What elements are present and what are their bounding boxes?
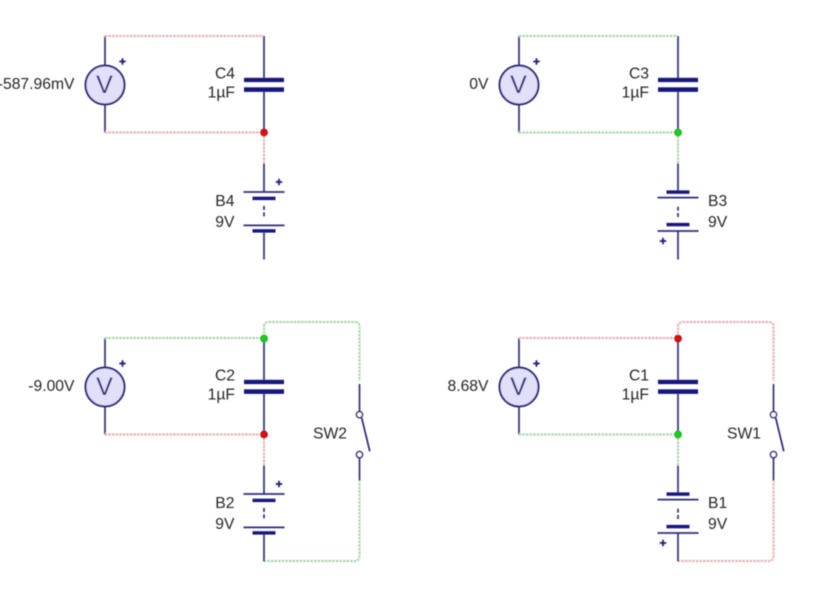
node junction (cap bottom) [261, 431, 268, 438]
switch SW1 [770, 384, 783, 481]
node junction (cap bottom) [675, 431, 682, 438]
svg-text:1µF: 1µF [208, 85, 235, 102]
label C1 value 1µF [622, 368, 649, 404]
wire to switch top [678, 322, 774, 382]
wire battery to switch bottom [678, 481, 774, 562]
svg-text:SW1: SW1 [727, 426, 761, 443]
wire battery to switch bottom [264, 481, 360, 562]
svg-text:0V: 0V [469, 76, 489, 93]
wire top net [519, 337, 678, 340]
capacitor C1 [658, 338, 698, 435]
node junction (cap bottom) [675, 129, 682, 136]
svg-text:-9.00V: -9.00V [28, 378, 75, 395]
wire top net [105, 337, 264, 340]
wire top net [105, 35, 264, 38]
label C2 value 1µF [208, 368, 235, 404]
node junction (cap top) [675, 335, 682, 342]
voltmeter V (8.68V) [500, 338, 540, 435]
svg-text:C4: C4 [215, 66, 235, 83]
label B1 value 9V [708, 495, 728, 533]
capacitor C4 [244, 36, 284, 133]
svg-text:C2: C2 [215, 368, 235, 385]
battery B1 9V [658, 466, 699, 562]
wire node to battery [677, 133, 680, 164]
label C3 value 1µF [622, 66, 650, 102]
wire node to battery [263, 133, 266, 164]
svg-text:9V: 9V [708, 516, 728, 533]
node junction (cap top) [261, 335, 268, 342]
svg-text:V: V [96, 71, 113, 99]
svg-text:1µF: 1µF [622, 387, 649, 404]
wire bottom net [105, 131, 264, 134]
svg-text:C3: C3 [629, 66, 649, 83]
capacitor C3 [658, 36, 698, 133]
svg-text:9V: 9V [708, 214, 728, 231]
svg-text:9V: 9V [215, 516, 235, 533]
svg-text:1µF: 1µF [208, 387, 235, 404]
capacitor C2 [244, 338, 284, 435]
svg-text:B4: B4 [215, 193, 234, 210]
wire bottom net [105, 433, 264, 436]
voltmeter V (0V) [500, 36, 540, 133]
voltmeter V (-9.00V) [86, 338, 126, 435]
label C4 value 1µF [208, 66, 236, 102]
label B3 value 9V [708, 193, 728, 231]
svg-text:B2: B2 [215, 495, 234, 512]
label B2 value 9V [215, 495, 235, 533]
node junction (cap bottom) [261, 129, 268, 136]
svg-text:V: V [510, 373, 527, 401]
battery B2 9V [244, 466, 285, 562]
svg-text:B3: B3 [708, 193, 727, 210]
battery B4 9V [244, 164, 285, 260]
svg-text:V: V [510, 71, 527, 99]
voltmeter V (-587.96mV) [86, 36, 126, 133]
switch SW2 [356, 384, 369, 481]
wire bottom net [519, 131, 678, 134]
wire top net [519, 35, 678, 38]
svg-text:SW2: SW2 [313, 426, 347, 443]
battery B3 9V [658, 164, 699, 260]
wire bottom net [519, 433, 678, 436]
svg-text:8.68V: 8.68V [448, 378, 490, 395]
label B4 value 9V [215, 193, 235, 231]
svg-text:V: V [96, 373, 113, 401]
wire node to battery [677, 435, 680, 466]
svg-text:C1: C1 [629, 368, 649, 385]
wire node to battery [263, 435, 266, 466]
svg-text:-587.96mV: -587.96mV [0, 76, 75, 93]
svg-text:9V: 9V [215, 214, 235, 231]
svg-text:B1: B1 [708, 495, 727, 512]
wire to switch top [264, 322, 360, 382]
svg-text:1µF: 1µF [622, 85, 649, 102]
